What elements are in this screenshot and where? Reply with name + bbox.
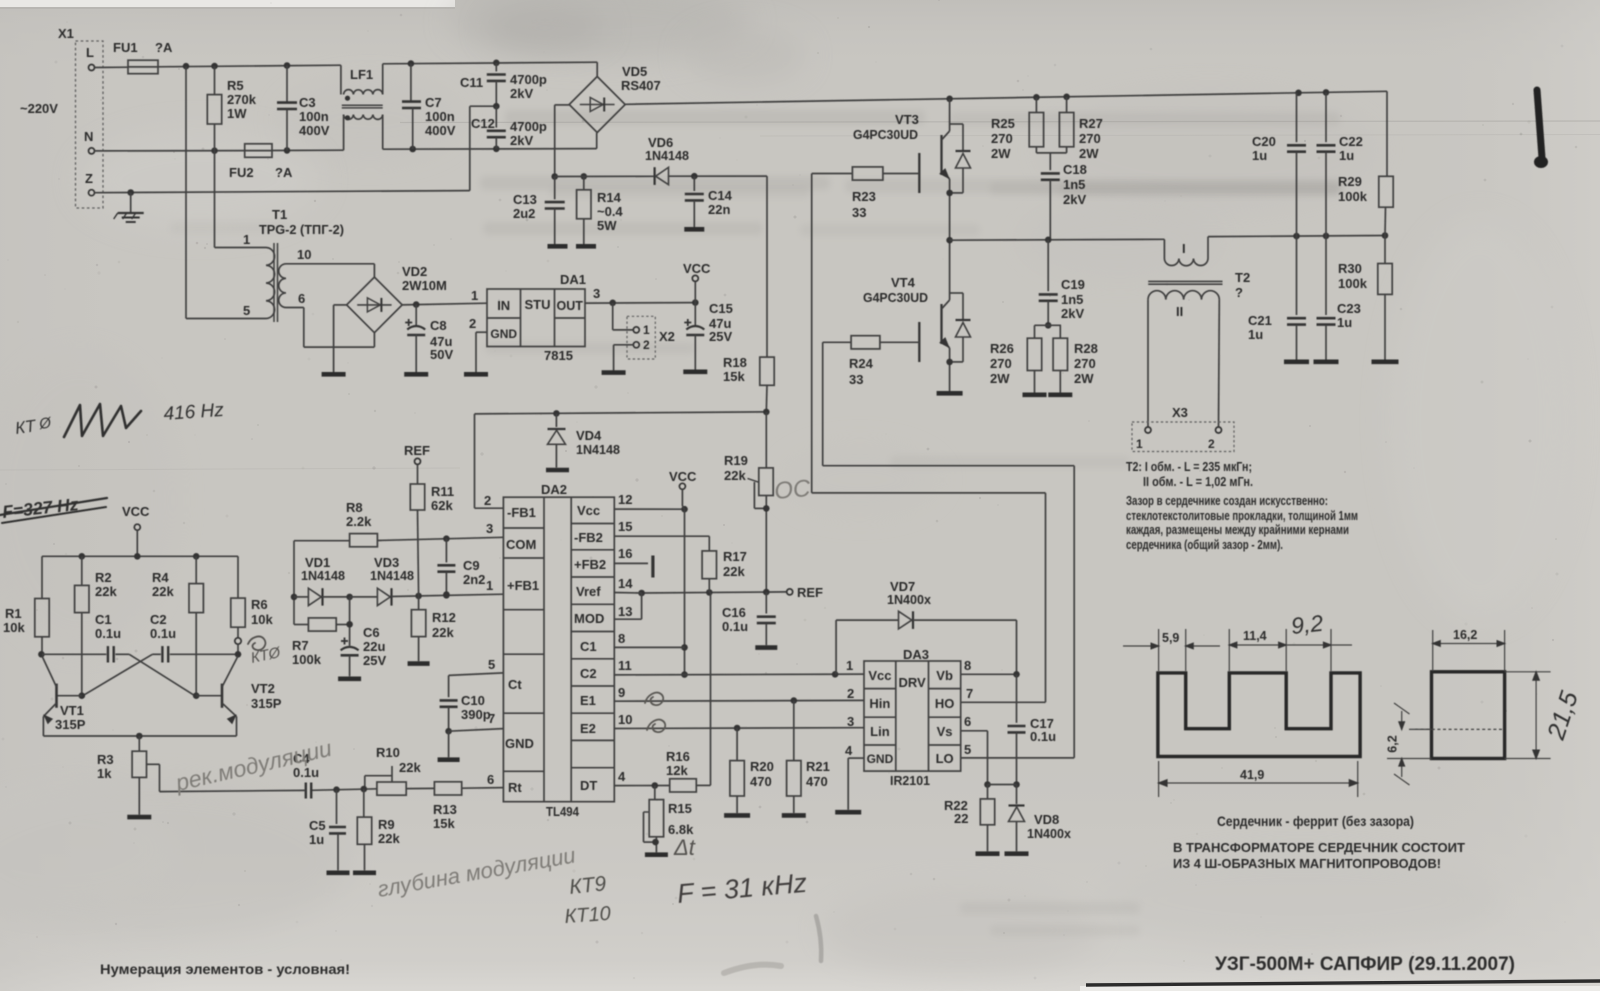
wire C4 node [311,789,377,791]
svg-text:1: 1 [1136,437,1143,451]
svg-text:15: 15 [618,519,632,534]
fuse FU2 [245,144,272,158]
resistor R6 [237,556,239,598]
wire R3 wiper to C4 [160,790,306,791]
svg-text:C16: C16 [722,605,746,620]
svg-text:R17: R17 [723,549,747,564]
svg-text:DA3: DA3 [903,647,929,662]
svg-text:+FB1: +FB1 [507,578,539,593]
wire R8 left drop [293,541,295,625]
svg-text:1N4148: 1N4148 [370,568,414,583]
wire pin5 Ct [449,673,504,676]
svg-text:DA2: DA2 [541,482,567,497]
svg-text:VT2: VT2 [251,681,275,696]
wire R23 to HO [812,173,853,175]
svg-text:315P: 315P [55,717,86,732]
svg-text:каждая, размещены между крайни: каждая, размещены между крайними кернами [1126,522,1349,537]
svg-text:0.1u: 0.1u [95,626,121,641]
wire N rail right [383,148,597,151]
svg-text:VT3: VT3 [895,112,919,127]
svg-text:16: 16 [618,546,632,561]
svg-text:-FB1: -FB1 [507,505,536,520]
resistor R4 [195,556,197,583]
wire pin6 Rt / R13 R10 [462,787,504,790]
resistor R2 [81,556,83,585]
resistor R20 [736,728,738,761]
svg-text:10: 10 [297,247,311,262]
svg-text:Vcc: Vcc [577,503,600,518]
pencil smudge vertical [816,916,821,961]
svg-text:8: 8 [618,631,625,646]
wire pin14 Vref [614,592,641,595]
svg-text:22n: 22n [708,202,730,217]
svg-text:TL494: TL494 [546,804,580,819]
svg-text:ОС: ОС [773,475,812,505]
svg-text:2W: 2W [1079,146,1099,161]
svg-text:R26: R26 [990,341,1014,356]
svg-text:C2: C2 [150,612,167,627]
wire VD2 minus to ground [334,304,347,306]
svg-text:33: 33 [849,372,863,387]
svg-text:22k: 22k [152,584,174,599]
capacitor C8 [415,305,417,326]
svg-text:?: ? [1235,285,1243,300]
svg-text:400V: 400V [425,123,456,138]
wire DA1 gnd [476,331,487,333]
svg-text:STU: STU [525,297,551,312]
svg-text:4700p: 4700p [510,119,547,134]
svg-text:11,4: 11,4 [1243,629,1267,643]
svg-text:C18: C18 [1063,162,1087,177]
svg-text:1N4148: 1N4148 [301,568,345,583]
capacitor C13 [551,173,558,180]
svg-text:470: 470 [806,774,828,789]
svg-text:0.1u: 0.1u [150,626,176,641]
svg-text:HO: HO [935,696,955,711]
svg-text:C12: C12 [471,116,495,131]
transistor VT1 [79,692,86,699]
bridge VD2 [347,277,403,333]
capacitor C9 [445,539,447,563]
svg-text:C11: C11 [460,75,483,90]
svg-text:8: 8 [964,658,971,673]
svg-text:LF1: LF1 [350,67,373,82]
svg-text:VD8: VD8 [1034,812,1059,827]
svg-text:2kV: 2kV [1061,306,1084,321]
svg-text:VCC: VCC [683,261,711,276]
svg-text:C6: C6 [363,625,380,640]
wire T1 pin6 to VD2 [286,307,304,309]
wire DA3 gnd [848,757,864,759]
svg-text:1u: 1u [1248,327,1263,342]
svg-text:C22: C22 [1339,134,1363,149]
svg-text:12: 12 [618,492,632,507]
transistor VT3 (IGBT) [918,153,920,193]
svg-text:11: 11 [618,658,632,673]
svg-text:VCC: VCC [122,504,150,519]
terminal VCC osc [134,524,140,530]
svg-text:0.1u: 0.1u [722,619,748,634]
wire HO pin7 [961,701,1046,703]
pen mark top right [1537,90,1542,158]
svg-text:7815: 7815 [544,348,573,363]
svg-text:C23: C23 [1337,301,1361,316]
capacitor C22 [1325,92,1327,142]
svg-text:25V: 25V [363,653,386,668]
svg-text:R5: R5 [227,78,244,93]
svg-text:R19: R19 [724,453,748,468]
svg-text:R14: R14 [597,190,622,205]
svg-text:?A: ?A [155,40,173,55]
transformer T2 [1163,239,1165,258]
svg-text:1W: 1W [227,106,247,121]
svg-text:Δt: Δt [673,835,696,860]
svg-text:5W: 5W [597,218,617,233]
resistor R19 [765,412,767,468]
resistor R24 [851,336,880,349]
svg-text:COM: COM [506,537,536,552]
svg-text:УЗГ-500М+ САПФИР (29.11.2007: УЗГ-500М+ САПФИР (29.11.2007) [1215,953,1515,975]
diode VD4 [555,413,557,427]
transistor VT4 (IGBT) [918,322,920,362]
svg-text:10: 10 [618,712,632,727]
ground earth [130,193,132,214]
regulator DA1 7815 [487,289,585,347]
svg-text:Ct: Ct [508,677,522,692]
wire pin13 MOD [614,618,641,620]
resistor R21 [793,701,795,761]
wire N drop to T1 pin1 [214,151,216,248]
svg-text:C2: C2 [580,666,597,681]
capacitor C3 [286,66,288,103]
wire pin12 Vcc [614,508,684,510]
svg-text:416 Hz: 416 Hz [163,400,225,425]
svg-text:E2: E2 [580,721,596,736]
wire Z rail [94,191,469,193]
svg-text:2: 2 [643,338,650,352]
svg-text:сердечника (общий зазор - 2мм): сердечника (общий зазор - 2мм). [1126,537,1283,552]
resistor R7 [294,624,308,626]
svg-text:R21: R21 [806,759,830,774]
wire VCC rail [42,555,238,557]
trimmer R15 [654,786,656,800]
svg-text:C10: C10 [461,693,485,708]
connector X2 [612,303,614,330]
svg-text:IN: IN [497,298,510,313]
svg-text:1u: 1u [1339,148,1354,163]
svg-text:5: 5 [964,742,971,757]
svg-text:2W: 2W [1074,371,1094,386]
capacitor C21 [1296,236,1298,315]
svg-text:1u: 1u [1337,315,1352,330]
svg-text:OUT: OUT [557,299,584,313]
svg-text:22: 22 [954,811,968,826]
svg-text:R15: R15 [668,801,692,816]
svg-text:1N4148: 1N4148 [576,442,620,457]
wire N to LF1 [272,149,344,151]
svg-text:400V: 400V [299,123,330,138]
svg-text:C3: C3 [299,95,316,110]
svg-text:VCC: VCC [669,469,697,484]
svg-text:2W10M: 2W10M [402,278,447,293]
svg-text:C1: C1 [95,612,112,627]
svg-text:1: 1 [846,658,853,673]
wire pin8 C1 [614,646,684,648]
fuse FU1 [128,60,158,73]
svg-text:270: 270 [990,356,1012,371]
svg-text:4: 4 [845,743,853,758]
svg-text:2kV: 2kV [510,133,533,148]
svg-text:?A: ?A [275,165,293,180]
svg-text:50V: 50V [430,347,453,362]
capacitor C6 [349,597,351,646]
svg-text:G4PC30UD: G4PC30UD [863,290,928,305]
wire cross coupling [129,654,195,695]
IC DA3 IR2101 [864,661,961,771]
capacitor C23 [1325,236,1327,315]
trimmer R10 [377,782,406,795]
svg-text:41,9: 41,9 [1240,768,1264,782]
svg-text:~220V: ~220V [20,101,58,116]
capacitor C2 [152,653,160,655]
svg-text:КТ9: КТ9 [568,872,607,899]
svg-text:R7: R7 [292,638,309,653]
svg-text:КТ10: КТ10 [564,903,612,928]
svg-text:R16: R16 [666,749,690,764]
capacitor C19 [1047,240,1049,291]
svg-text:VT1: VT1 [60,703,84,718]
svg-text:22k: 22k [399,760,421,775]
svg-text:2: 2 [484,493,491,508]
svg-text:3: 3 [593,286,600,301]
svg-text:R29: R29 [1338,174,1362,189]
wire pin6 Vs [961,730,988,732]
svg-text:2W: 2W [990,371,1010,386]
svg-text:25V: 25V [709,329,732,344]
diode VD1 [294,596,308,598]
svg-text:1N400x: 1N400x [887,592,932,607]
wire VD2 plus to DA1 [402,303,487,305]
svg-text:R4: R4 [152,570,169,585]
svg-text:Z: Z [85,171,93,186]
capacitor C10 [440,699,458,702]
diode VD8 [1016,785,1018,805]
svg-text:2u2: 2u2 [513,206,535,221]
svg-text:VT4: VT4 [891,275,916,290]
wire VD5 minus [596,132,598,134]
svg-text:14: 14 [618,576,633,591]
svg-text:C20: C20 [1252,134,1276,149]
svg-text:REF: REF [404,443,430,458]
wire T2 sec to X3 [1147,300,1149,427]
pencil loop E2 [647,720,665,732]
svg-text:22u: 22u [363,639,385,654]
capacitor C5 [336,790,338,824]
svg-text:R18: R18 [723,355,747,370]
svg-text:22k: 22k [723,564,745,579]
svg-text:1N400x: 1N400x [1027,826,1072,841]
svg-text:X2: X2 [659,329,675,344]
resistor R11 [417,464,419,484]
svg-text:4700p: 4700p [510,72,547,87]
core drawing E-shape [1158,673,1360,757]
svg-text:6: 6 [487,772,494,787]
wire pin11 C2 to DA3 [614,673,864,676]
svg-text:R23: R23 [852,189,876,204]
svg-text:6,2: 6,2 [1386,735,1400,752]
terminal L [89,65,95,71]
svg-text:22k: 22k [432,625,454,640]
svg-text:270: 270 [991,131,1013,146]
svg-text:R6: R6 [251,597,268,612]
svg-text:MOD: MOD [574,611,604,626]
svg-text:-FB2: -FB2 [574,530,603,545]
svg-text:В ТРАНСФОРМАТОРЕ СЕРДЕЧНИК СОС: В ТРАНСФОРМАТОРЕ СЕРДЕЧНИК СОСТОИТ [1173,840,1465,855]
svg-text:N: N [84,129,93,144]
wire Z to C11/C12 node [469,106,471,190]
capacitor C18 [1035,147,1037,153]
svg-text:GND: GND [490,327,517,341]
svg-text:10k: 10k [3,620,25,635]
resistor R18 [766,176,768,357]
svg-text:5: 5 [488,657,495,672]
svg-text:1u: 1u [309,832,324,847]
svg-text:270: 270 [1079,131,1101,146]
svg-text:~0.4: ~0.4 [597,204,623,219]
svg-text:C8: C8 [430,318,447,333]
svg-text:GND: GND [867,752,894,766]
wire L rail [158,65,341,67]
resistor R26 [1035,324,1062,326]
svg-text:R30: R30 [1338,261,1362,276]
resistor R1 [41,556,43,598]
svg-text:R8: R8 [346,500,363,515]
svg-text:R28: R28 [1074,341,1098,356]
svg-text:1n5: 1n5 [1061,292,1083,307]
wire REF rail [642,592,787,593]
svg-text:12k: 12k [666,763,688,778]
svg-text:FU2: FU2 [229,165,254,180]
svg-text:Сердечник - феррит (без зазора: Сердечник - феррит (без зазора) [1217,814,1414,829]
svg-text:Vcc: Vcc [868,668,891,683]
svg-text:R3: R3 [97,752,114,767]
resistor R13 [434,782,461,795]
svg-text:2kV: 2kV [510,86,533,101]
svg-text:6: 6 [298,291,305,306]
capacitor C17 [1016,674,1018,723]
svg-text:Vb: Vb [936,668,953,683]
diode VD3 [346,594,353,601]
svg-text:0.1u: 0.1u [1030,729,1056,744]
svg-text:C15: C15 [709,301,733,316]
svg-text:L: L [86,45,94,60]
svg-text:1: 1 [243,232,250,247]
svg-text:C14: C14 [708,188,733,203]
wire R24 to LO [823,341,851,343]
capacitor C11 [495,63,497,72]
wire T2 out rail [1208,236,1385,237]
svg-text:R24: R24 [849,356,874,371]
svg-text:Hin: Hin [869,696,890,711]
svg-text:16,2: 16,2 [1453,628,1477,642]
resistor R5 [214,66,216,95]
svg-text:LO: LO [936,751,954,766]
svg-text:100n: 100n [299,109,329,124]
diode VD6 [653,167,655,185]
svg-text:C13: C13 [513,192,537,207]
svg-text:VD5: VD5 [622,64,647,79]
svg-text:270: 270 [1074,356,1096,371]
svg-text:Vs: Vs [937,724,953,739]
svg-text:Нумерация элементов - условная: Нумерация элементов - условная! [100,961,350,977]
svg-text:E1: E1 [580,693,596,708]
svg-text:22k: 22k [95,584,117,599]
wire pin8 Vb [961,673,1017,675]
svg-text:1u: 1u [1252,148,1267,163]
svg-text:R1: R1 [5,606,22,621]
resistor R23 [852,167,883,180]
wire pin10 E2 to DA3 [614,727,864,730]
svg-text:10k: 10k [251,612,273,627]
wire feedback line [475,412,767,414]
resistor R30 [1384,236,1386,264]
capacitor C16 [765,592,767,613]
svg-text:3: 3 [847,714,854,729]
svg-text:C7: C7 [425,95,442,110]
svg-text:15k: 15k [723,369,745,384]
resistor R25 [1035,97,1037,112]
svg-text:VD2: VD2 [402,264,427,279]
capacitor C12 [493,103,500,110]
IC DA2 TL494 [503,497,614,802]
svg-text:R2: R2 [95,570,112,585]
svg-text:1k: 1k [97,766,112,781]
svg-text:C1: C1 [580,639,597,654]
resistor R28 [1059,325,1061,338]
filter LF1 [340,65,342,94]
svg-text:2.2k: 2.2k [346,514,372,529]
transistor VT2 [193,692,200,699]
resistor R9 [363,789,365,817]
resistor R17 [614,535,709,537]
svg-text:6: 6 [964,714,971,729]
wire Vcc-C1-C2 vertical [684,509,686,674]
terminal REF top [415,458,421,464]
svg-text:R10: R10 [376,745,400,760]
svg-text:390p: 390p [461,707,491,722]
wire N rail [94,150,244,152]
svg-text:9: 9 [618,685,625,700]
wire half-bridge mid rail [950,238,1165,241]
wire COM line [377,537,503,540]
svg-text:33: 33 [852,205,866,220]
svg-text:II обм. - L = 1,02 мГн.: II обм. - L = 1,02 мГн. [1143,474,1253,489]
svg-text:100k: 100k [1338,189,1368,204]
svg-text:100k: 100k [292,652,322,667]
wire L drop to T1 pin5 [185,66,187,318]
svg-text:2: 2 [469,316,476,331]
svg-text:R25: R25 [991,116,1015,131]
svg-text:C9: C9 [463,558,480,573]
svg-text:VD4: VD4 [576,428,602,443]
svg-text:22k: 22k [378,831,400,846]
handwritten KT0 at VT2 [248,637,265,651]
wire pin4 DT [614,785,669,787]
wire pin7 GND [449,729,504,732]
svg-text:Зазор в сердечнике создан иску: Зазор в сердечнике создан искусственно: [1126,493,1328,508]
svg-text:X1: X1 [58,26,74,41]
svg-text:RS407: RS407 [621,78,661,93]
